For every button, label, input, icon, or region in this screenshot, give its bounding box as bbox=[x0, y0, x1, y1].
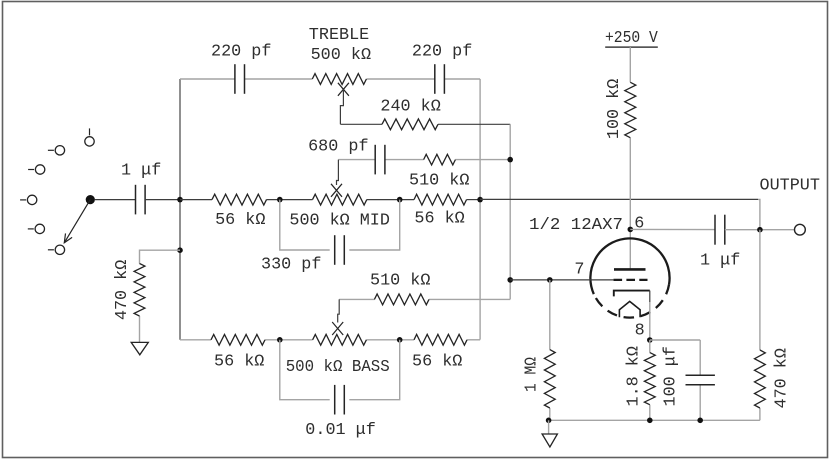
svg-text:220 pf: 220 pf bbox=[412, 42, 472, 61]
svg-text:510 kΩ: 510 kΩ bbox=[409, 172, 469, 191]
svg-text:100 μf: 100 μf bbox=[662, 346, 681, 406]
wire: output cap to terminal bbox=[725, 229, 795, 231]
wire: treble row bbox=[180, 78, 480, 80]
svg-text:8: 8 bbox=[635, 322, 645, 341]
wire: switch to input cap bbox=[95, 199, 136, 201]
wire: cathode lead (pin 8) bbox=[649, 291, 651, 340]
svg-text:470 kΩ: 470 kΩ bbox=[773, 348, 792, 408]
resistor R 100 kohm plate load bbox=[625, 82, 636, 137]
wire: 680pf row bbox=[338, 159, 510, 161]
svg-text:220 pf: 220 pf bbox=[211, 42, 271, 61]
wire: mid row bbox=[180, 199, 480, 201]
triode U1 1/2 12AX7 envelope bbox=[590, 238, 669, 317]
capacitor C 220 pf left bbox=[235, 64, 245, 94]
svg-text:56 kΩ: 56 kΩ bbox=[214, 353, 264, 372]
resistor R 56 kohm bass-right bbox=[414, 334, 467, 345]
node: 510 bus 680 row junction bbox=[507, 157, 513, 163]
capacitor C 220 pf right bbox=[435, 64, 445, 94]
wire: right bus (tone stack mix) bbox=[479, 79, 481, 340]
resistor R 510 kohm lower bbox=[374, 294, 429, 305]
svg-text:OUTPUT: OUTPUT bbox=[760, 176, 820, 195]
wire: mid row output run to output corner bbox=[480, 199, 760, 227]
potentiometer 500 kohm TREBLE element bbox=[312, 74, 366, 85]
wire: ground bus bbox=[549, 419, 760, 421]
svg-text:510 kΩ: 510 kΩ bbox=[370, 272, 430, 291]
wire: 1.8k branch bbox=[649, 340, 651, 420]
ground (input) bbox=[131, 342, 148, 354]
svg-text:56 kΩ: 56 kΩ bbox=[215, 211, 265, 230]
node: bass row left tap bbox=[277, 337, 283, 343]
capacitor C 1 uf output coupling bbox=[715, 215, 725, 245]
tube plate (anode) bbox=[614, 268, 646, 271]
capacitor C 1 uf input coupling bbox=[136, 185, 146, 215]
svg-text:100 kΩ: 100 kΩ bbox=[605, 79, 624, 139]
svg-text:500 kΩ BASS: 500 kΩ BASS bbox=[286, 358, 390, 377]
treble pot wiper arrow bbox=[338, 83, 349, 125]
wire: plate supply drop bbox=[629, 47, 631, 269]
svg-text:330 pf: 330 pf bbox=[261, 256, 321, 275]
wire: 0.01uf loop bbox=[280, 340, 400, 400]
capacitor C 0.01 uf bbox=[335, 385, 345, 415]
wire: bass 510k row bbox=[339, 298, 510, 300]
tube cathode bbox=[614, 291, 650, 297]
node: grid 1M junction bbox=[547, 277, 553, 283]
resistor R 56 kohm mid-left bbox=[212, 194, 267, 205]
node: mid row left tap bbox=[277, 197, 283, 203]
resistor R 510 kohm upper bbox=[424, 154, 456, 165]
wire: bass row bbox=[180, 339, 480, 341]
svg-text:56 kΩ: 56 kΩ bbox=[412, 353, 462, 372]
svg-text:1 μf: 1 μf bbox=[700, 251, 740, 270]
node: bass row right tap bbox=[397, 337, 403, 343]
node: ground bus 100uf bbox=[697, 418, 703, 424]
wire: 240k row bbox=[340, 123, 510, 125]
node: left bus input junction bbox=[177, 197, 183, 203]
node: mid row right tap bbox=[397, 197, 403, 203]
node: left bus 470k junction bbox=[177, 247, 183, 253]
capacitor C 100 uf cathode bypass bbox=[686, 375, 715, 384]
svg-text:1/2 12AX7: 1/2 12AX7 bbox=[529, 216, 623, 235]
tube grid (dashed) bbox=[614, 279, 648, 281]
node: ground bus 1.8k bbox=[647, 418, 653, 424]
resistor R 1.8 kohm cathode bbox=[644, 353, 655, 405]
wire: 470k input branch bbox=[140, 250, 181, 342]
wire: 330pf loop bbox=[280, 200, 400, 250]
wire: plate row to output cap bbox=[630, 228, 715, 230]
potentiometer 500 kohm BASS element bbox=[313, 334, 367, 345]
resistor R 1 Mohm grid leak bbox=[544, 350, 555, 408]
terminal OUTPUT jack bbox=[795, 224, 806, 235]
svg-text:1.8 kΩ: 1.8 kΩ bbox=[625, 346, 644, 406]
ground (cathode and output) bbox=[542, 420, 557, 447]
svg-text:56 kΩ: 56 kΩ bbox=[414, 210, 464, 229]
mid pot wiper arrow bbox=[331, 160, 342, 197]
node: cathode junction bbox=[647, 337, 653, 343]
resistor R 470 kohm input load bbox=[134, 264, 145, 317]
wire: grid lead (pin 7) bbox=[510, 279, 614, 281]
svg-text:+250 V: +250 V bbox=[605, 29, 658, 48]
wire: output load branch bbox=[759, 230, 761, 421]
potentiometer 500 kohm MID element bbox=[313, 194, 367, 205]
node: output junction bbox=[757, 227, 763, 233]
capacitor C 680 pf bbox=[375, 145, 385, 175]
svg-text:0.01 μf: 0.01 μf bbox=[305, 421, 376, 440]
resistor R 470 kohm output load bbox=[755, 350, 766, 408]
wire: 100uf branch bbox=[650, 340, 700, 420]
bass pot wiper arrow bbox=[332, 299, 343, 335]
supply terminal +250 V bbox=[605, 46, 658, 48]
svg-text:680 pf: 680 pf bbox=[308, 138, 368, 157]
svg-text:1 MΩ: 1 MΩ bbox=[523, 357, 542, 392]
svg-text:500 kΩ MID: 500 kΩ MID bbox=[289, 211, 390, 230]
svg-text:470 kΩ: 470 kΩ bbox=[113, 260, 132, 320]
capacitor C 330 pf bbox=[335, 235, 345, 265]
node: plate junction (pin 6) bbox=[628, 227, 634, 233]
wire: input cap to left bus bbox=[145, 199, 180, 201]
svg-text:7: 7 bbox=[574, 260, 584, 279]
resistor R 56 kohm mid-right bbox=[414, 194, 467, 205]
svg-text:240 kΩ: 240 kΩ bbox=[380, 98, 440, 117]
node: 510 bus grid junction bbox=[507, 277, 513, 283]
resistor R 240 kohm bbox=[382, 119, 438, 130]
wire: treble bus x510 bbox=[509, 124, 511, 299]
wire: 1M branch bbox=[549, 280, 551, 420]
svg-text:1 μf: 1 μf bbox=[121, 162, 161, 181]
svg-text:TREBLE: TREBLE bbox=[309, 26, 369, 45]
tube heater filament bbox=[619, 301, 640, 317]
resistor R 56 kohm bass-left bbox=[211, 334, 265, 345]
node: ground bus 1M bbox=[546, 418, 552, 424]
svg-text:500 kΩ: 500 kΩ bbox=[311, 46, 371, 65]
node: mid row right bus junction bbox=[477, 197, 483, 203]
switch SW1 input selector contacts bbox=[20, 128, 94, 254]
svg-text:6: 6 bbox=[634, 214, 644, 233]
switch SW1 rotor arrow bbox=[64, 195, 95, 243]
wire: left bus bbox=[179, 79, 181, 340]
